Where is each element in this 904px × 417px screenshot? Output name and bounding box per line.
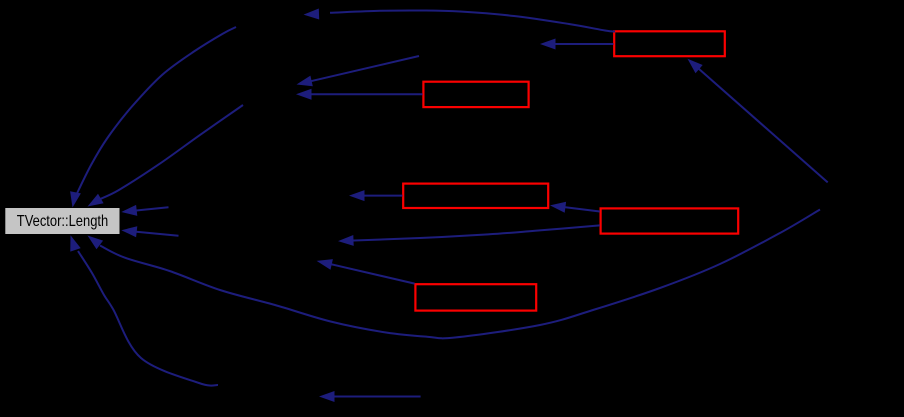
edge: far-right hidden node to TVector::Length bottom (long sagging curve) [88, 210, 821, 339]
edge: R3 to hidden node (horizontal arrow left) [349, 190, 402, 201]
edge: far-right hidden node up into R1 bottom [688, 59, 828, 183]
node R4 (red truncated box) [601, 208, 739, 233]
svg-text:TVector::Length: TVector::Length [17, 213, 108, 230]
edge: R2 to hidden node (horizontal arrow left) [296, 89, 423, 100]
edge: R1 to hidden node (horizontal arrow left) [540, 39, 614, 50]
edge: bottom hidden node to TVector::Length bottom (curved, arrow up) [70, 235, 218, 385]
edge: R1 to hidden top node (long top curve, arrow points left) [304, 9, 616, 32]
edge: hidden mid node to TVector::Length (arrow into box top) [88, 105, 244, 207]
edge: hidden node to hidden node (diagonal, arrow left-down) [297, 56, 420, 86]
edge: R4 into R3 right edge (arrow left, slight up) [550, 202, 600, 213]
edge: bottom hidden node to bottom hidden node (horizontal arrow left) [319, 391, 421, 402]
node R3 (red truncated box) [403, 184, 548, 208]
edge: near hidden node into TVector::Length right edge (upper) [121, 205, 168, 216]
edge: near hidden node into TVector::Length right edge (lower) [121, 226, 178, 237]
node R2 (red truncated box) [423, 82, 528, 107]
node R5 (red truncated box) [415, 284, 536, 310]
edge: R4 to hidden node (long shallow arrow left) [338, 225, 600, 246]
node TVector::Length (gray focus box) [5, 208, 119, 234]
edge: R5 to hidden node (arrow left-up) [317, 259, 415, 284]
edge: hidden top node to TVector::Length (curved, arrow into box top) [70, 27, 236, 208]
node R1 (red truncated box) [614, 31, 725, 56]
